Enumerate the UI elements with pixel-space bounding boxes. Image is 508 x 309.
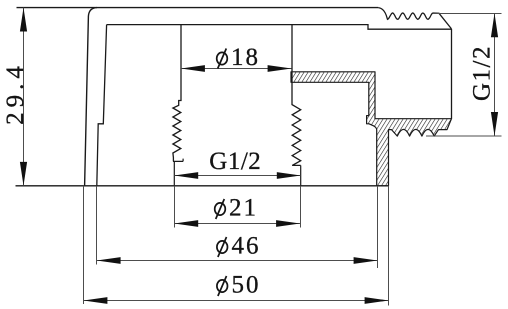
arrow G12 inner right [277, 172, 301, 179]
dimension 29.4 line [23, 8, 25, 186]
svg-text:46: 46 [232, 233, 261, 260]
arrow G12 right bottom [491, 112, 498, 136]
body inner left profile [97, 25, 107, 186]
dimension d21 line [174, 223, 300, 225]
symbol phi21 [215, 203, 226, 215]
male port top thread outline [378, 8, 451, 29]
body top outline line [17, 7, 379, 9]
svg-text:50: 50 [232, 272, 261, 299]
body left outer edge [85, 8, 97, 186]
svg-text:21: 21 [229, 195, 258, 222]
extension line G12 right top [433, 13, 502, 15]
symbol phi50 [217, 280, 228, 292]
dimension G1/2 inner line [174, 175, 300, 177]
arrow d21 right [276, 220, 300, 227]
extension line d21 right [300, 186, 302, 228]
bore left line and female thread left [173, 25, 181, 162]
extension line d50 left [83, 186, 85, 304]
arrow d21 left [174, 220, 198, 227]
extension line G12 right bottom [426, 135, 502, 137]
male port end face [451, 29, 453, 119]
arrow 29.4 top [20, 8, 27, 32]
extension line d21 left [174, 186, 176, 228]
thread relief line left [173, 161, 175, 185]
arrow d18 right [268, 65, 292, 72]
dimension d18 line [181, 68, 292, 70]
arrow 29.4 bottom [20, 162, 27, 186]
arrow d50 right [365, 297, 389, 304]
arrow d50 left [84, 297, 108, 304]
svg-text:G1/2: G1/2 [209, 148, 261, 175]
hatched section wall [291, 72, 452, 186]
extension line d46 right [377, 186, 379, 268]
body inner top line with step [107, 25, 452, 30]
dimension d50 line [84, 300, 389, 302]
symbol phi18 [217, 52, 228, 64]
arrow d18 left [181, 65, 205, 72]
extension line d46 left [96, 186, 98, 265]
dimension d46 line [97, 260, 378, 262]
svg-text:29.4: 29.4 [2, 61, 29, 125]
dimension G12 right line [494, 13, 496, 136]
thread runout hook left [173, 159, 183, 162]
extension line d50 right [388, 186, 390, 306]
body baseline [16, 185, 390, 187]
arrow d46 right [354, 257, 378, 264]
thread relief line right [300, 165, 302, 185]
svg-text:18: 18 [231, 44, 260, 71]
arrow G12 inner left [174, 172, 198, 179]
symbol phi46 [217, 241, 228, 253]
bore right line and female thread right [292, 25, 301, 166]
arrow d46 left [97, 257, 121, 264]
svg-text:G1/2: G1/2 [469, 45, 496, 101]
arrow G12 right top [491, 13, 498, 37]
